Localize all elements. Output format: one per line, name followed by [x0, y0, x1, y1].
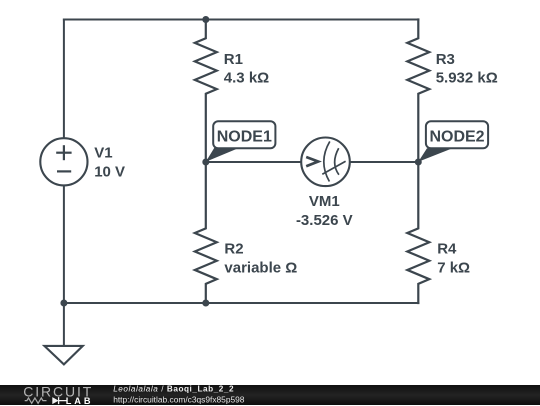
svg-text:-3.526 V: -3.526 V: [296, 212, 353, 229]
svg-text:NODE2: NODE2: [429, 129, 484, 146]
svg-text:V1: V1: [94, 145, 112, 162]
svg-text:LAB: LAB: [66, 395, 94, 405]
svg-text:R3: R3: [436, 51, 455, 68]
svg-text:R1: R1: [224, 51, 243, 68]
svg-text:4.3 kΩ: 4.3 kΩ: [224, 70, 269, 87]
svg-text:variable Ω: variable Ω: [224, 259, 297, 276]
svg-text:7 kΩ: 7 kΩ: [437, 259, 470, 276]
svg-text:5.932 kΩ: 5.932 kΩ: [436, 70, 498, 87]
svg-text:10 V: 10 V: [94, 163, 125, 180]
svg-text:Leolalalala / Baoqi_Lab_2_2: Leolalalala / Baoqi_Lab_2_2: [113, 385, 234, 394]
svg-text:NODE1: NODE1: [217, 129, 272, 146]
svg-text:R2: R2: [224, 240, 243, 257]
svg-text:R4: R4: [437, 240, 457, 257]
svg-text:http://circuitlab.com/c3qs9fx8: http://circuitlab.com/c3qs9fx85p598: [113, 394, 245, 404]
svg-text:VM1: VM1: [309, 193, 340, 210]
